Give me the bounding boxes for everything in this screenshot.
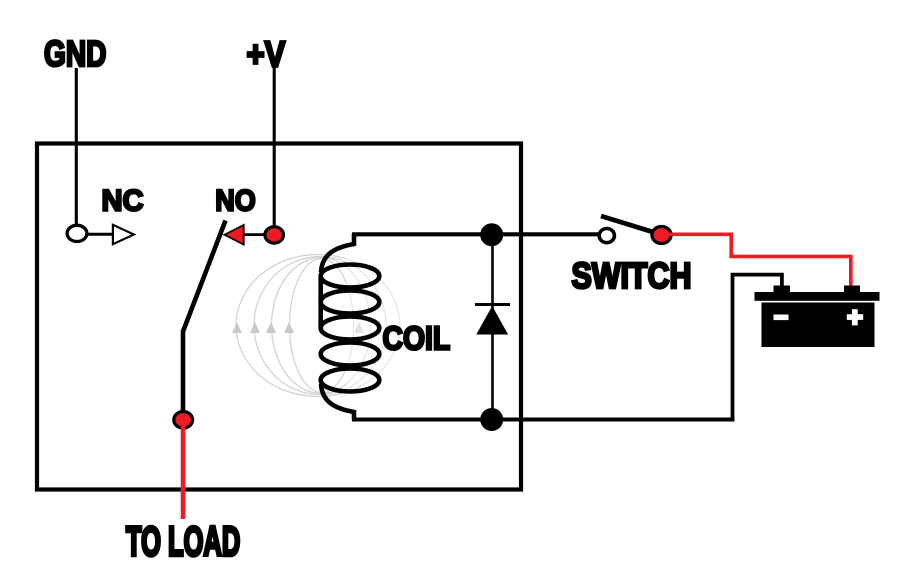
svg-text:NO: NO bbox=[215, 184, 255, 218]
svg-text:+V: +V bbox=[247, 35, 286, 75]
svg-text:COIL: COIL bbox=[383, 319, 451, 357]
svg-text:SWITCH: SWITCH bbox=[572, 257, 692, 297]
svg-text:GND: GND bbox=[44, 34, 106, 74]
svg-text:TO LOAD: TO LOAD bbox=[126, 519, 240, 565]
svg-text:NC: NC bbox=[102, 184, 144, 217]
